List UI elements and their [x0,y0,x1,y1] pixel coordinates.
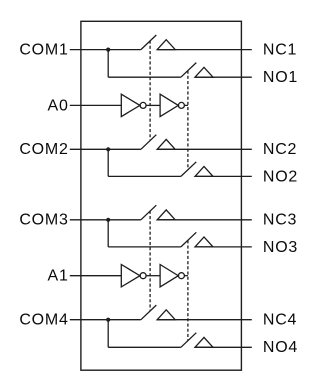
wire NO2 [195,175,252,177]
inverter U-A0a bubble [140,102,146,108]
control line A0-NO (dashed) [187,71,189,170]
wire NO3 [195,246,252,248]
svg-text:COM1: COM1 [19,42,68,59]
switch NO1 arm [181,63,196,78]
wire NC2 [157,148,252,150]
switch NO4 contact triangle [195,337,213,347]
svg-text:NC4: NC4 [263,312,297,329]
inverter U-A1b [160,265,178,287]
wire A1 inverted [146,275,160,277]
wire COM1 lead [70,49,141,51]
wire COM3 branch down [107,220,109,247]
wire NO1 [195,76,252,78]
wire NO4 [195,346,252,348]
wire COM2 branch down [107,149,109,176]
svg-text:A0: A0 [48,97,69,114]
switch NO3 arm [181,232,196,247]
switch NO1 contact triangle [195,67,213,77]
wire COM1 branch down [107,50,109,78]
node COM3 junction [106,218,110,222]
wire A0 inverted [146,104,160,106]
svg-text:COM3: COM3 [19,212,68,229]
inverter U-A1a [121,265,140,287]
svg-text:NC2: NC2 [263,141,297,158]
wire COM3 lead [70,219,141,221]
svg-text:NO4: NO4 [263,339,298,356]
svg-text:NO3: NO3 [263,239,298,256]
svg-text:NC1: NC1 [263,42,297,59]
svg-text:COM2: COM2 [19,141,68,158]
switch NO4 arm [181,333,196,348]
inverter U-A0b [160,94,178,116]
control line A0-NC (dashed) [149,41,151,141]
wire A0 lead [70,104,122,106]
IC body outline [81,21,242,370]
wire A0 buffered [184,104,188,106]
wire A1 lead [70,275,122,277]
node COM1 junction [106,48,110,52]
wire NC1 [157,49,252,51]
wire COM4 branch down [107,320,109,348]
inverter U-A1b bubble [178,273,184,279]
switch NC1 arm [141,35,156,50]
wire branch to NO1 switch [108,76,181,78]
switch NC3 contact triangle [157,210,175,220]
wire COM4 lead [70,319,141,321]
inverter U-A0b bubble [178,102,184,108]
svg-text:NC3: NC3 [263,212,297,229]
svg-text:NO1: NO1 [263,69,298,86]
node COM4 junction [106,318,110,322]
wire branch to NO4 switch [108,346,181,348]
inverter U-A0a [121,94,140,116]
control line A1-NC (dashed) [149,211,151,311]
switch NC4 contact triangle [157,310,175,320]
control line A1-NO (dashed) [187,240,189,340]
wire NC4 [157,319,252,321]
svg-text:NO2: NO2 [263,168,298,185]
node COM2 junction [106,147,110,151]
wire NC3 [157,219,252,221]
wire A1 buffered [184,275,188,277]
switch NC4 arm [141,305,156,320]
switch NC2 arm [141,135,156,150]
switch NO2 contact triangle [195,167,213,177]
svg-text:A1: A1 [48,268,69,285]
switch NO3 contact triangle [195,237,213,247]
switch NC1 contact triangle [157,40,175,50]
svg-text:COM4: COM4 [19,312,68,329]
switch NC3 arm [141,205,156,220]
wire branch to NO3 switch [108,246,181,248]
switch NO2 arm [181,162,196,177]
wire branch to NO2 switch [108,175,181,177]
switch NC2 contact triangle [157,139,175,149]
inverter U-A1a bubble [140,273,146,279]
wire COM2 lead [70,148,141,150]
